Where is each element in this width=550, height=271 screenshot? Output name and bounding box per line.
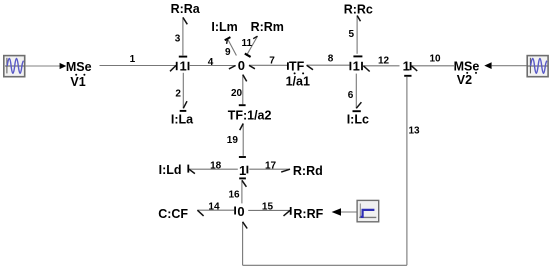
0-junction J0 bbox=[238, 58, 245, 73]
resistor R:Rm bbox=[251, 20, 284, 34]
inductor I:La bbox=[171, 112, 194, 126]
svg-text:I:La: I:La bbox=[171, 112, 194, 126]
svg-text:5: 5 bbox=[349, 29, 355, 40]
svg-text:TF:1/a2: TF:1/a2 bbox=[228, 108, 272, 122]
signal arrowhead into R:RF bbox=[332, 208, 341, 215]
sine source icon (left signal generator) bbox=[4, 56, 25, 77]
svg-text:8: 8 bbox=[328, 54, 334, 65]
source MSe (right label) bbox=[454, 59, 480, 73]
svg-text:MSe: MSe bbox=[66, 60, 92, 74]
bond 6 wire J2 to I:Lc bbox=[348, 74, 362, 112]
svg-text:1: 1 bbox=[130, 54, 136, 65]
sine source icon (right signal generator) bbox=[527, 56, 548, 77]
svg-text:4: 4 bbox=[208, 57, 214, 68]
1-junction J2 bbox=[350, 58, 362, 73]
bond 13 wire J3 to bottom 0-junction (routed) bbox=[243, 76, 420, 265]
svg-text:I:Ld: I:Ld bbox=[159, 163, 182, 177]
bond 8 wire TF to J2 bbox=[307, 54, 350, 70]
source MSe (label) bbox=[66, 60, 92, 74]
svg-text:15: 15 bbox=[262, 201, 274, 212]
bond 9 wire J0 to I:Lm bbox=[225, 37, 237, 58]
svg-text:2: 2 bbox=[175, 89, 181, 100]
bond 4 wire J1 to 0-junction bbox=[189, 57, 236, 69]
svg-text:1: 1 bbox=[403, 58, 410, 73]
MSe V2 activity dots bbox=[466, 72, 477, 74]
MSe V1 activity dots bbox=[75, 74, 85, 76]
inductor I:Ld bbox=[159, 163, 182, 177]
svg-text:10: 10 bbox=[430, 53, 442, 64]
bond 16 wire J4 to J5 bbox=[229, 178, 247, 203]
svg-text:R:Rd: R:Rd bbox=[293, 164, 323, 178]
bond 11 wire J0 to R:Rm bbox=[242, 36, 258, 57]
svg-text:19: 19 bbox=[227, 135, 239, 146]
bond 19 wire TF:1/a2 to J4 bbox=[227, 124, 246, 158]
bond 5 wire J2 to R:Rc bbox=[349, 16, 363, 57]
svg-text:R:Rc: R:Rc bbox=[344, 2, 373, 16]
svg-text:14: 14 bbox=[208, 201, 220, 212]
svg-text:R:Rm: R:Rm bbox=[251, 20, 284, 34]
svg-text:I:Lc: I:Lc bbox=[347, 112, 369, 126]
svg-text:1: 1 bbox=[239, 163, 246, 178]
bond 10 wire MSe V2 to J3 bbox=[411, 53, 454, 71]
inductor I:Lc bbox=[347, 112, 369, 126]
svg-text:TF: TF bbox=[289, 60, 305, 74]
svg-text:12: 12 bbox=[378, 56, 390, 67]
signal wire icon to MSe V1 bbox=[25, 65, 60, 67]
svg-text:9: 9 bbox=[225, 47, 231, 58]
svg-text:R:Ra: R:Ra bbox=[171, 2, 201, 16]
step source icon (signal generator) bbox=[357, 200, 379, 221]
svg-text:20: 20 bbox=[231, 88, 243, 99]
bond 7 wire J0 to TF bbox=[249, 55, 288, 69]
svg-text:V1: V1 bbox=[70, 75, 85, 89]
transformer TF:1/a2 bbox=[228, 108, 272, 122]
svg-text:6: 6 bbox=[348, 90, 354, 101]
svg-text:1: 1 bbox=[353, 58, 360, 73]
svg-text:C:CF: C:CF bbox=[158, 207, 188, 221]
bond 20 wire J0 to TF:1/a2 bbox=[231, 75, 247, 106]
bond 17 wire J4 to R:Rd bbox=[249, 161, 290, 172]
bond 12 wire J3 to J2 bbox=[363, 56, 399, 72]
svg-text:0: 0 bbox=[238, 58, 245, 73]
svg-text:7: 7 bbox=[269, 55, 275, 66]
resistor R:Rd bbox=[293, 164, 323, 178]
svg-text:R:RF: R:RF bbox=[293, 207, 323, 221]
signal arrowhead into MSe V1 bbox=[60, 63, 67, 69]
svg-text:16: 16 bbox=[229, 189, 241, 200]
svg-text:13: 13 bbox=[409, 126, 421, 137]
1-junction J1 bbox=[177, 58, 189, 73]
value label V1 bbox=[70, 75, 85, 89]
svg-text:1/a1: 1/a1 bbox=[286, 75, 310, 89]
svg-text:0: 0 bbox=[237, 204, 244, 219]
bond 2 wire J1 to I:La bbox=[175, 73, 187, 111]
transformer TF 1/a1 bbox=[286, 60, 310, 89]
svg-text:3: 3 bbox=[175, 34, 181, 45]
bond 15 wire J5 to R:RF bbox=[248, 201, 291, 216]
svg-text:17: 17 bbox=[265, 161, 277, 172]
resistor R:Rc bbox=[344, 2, 373, 16]
resistor R:Ra bbox=[171, 2, 201, 16]
svg-text:1: 1 bbox=[179, 58, 186, 73]
bond 3 wire J1 to R:Ra bbox=[175, 17, 188, 56]
1-junction J4 (lower) bbox=[239, 163, 247, 178]
signal arrowhead into MSe V2 bbox=[484, 62, 491, 69]
signal wire icon to MSe V2 bbox=[492, 65, 527, 67]
svg-text:18: 18 bbox=[210, 160, 222, 171]
value label V2 bbox=[457, 73, 472, 87]
svg-text:11: 11 bbox=[242, 38, 253, 49]
0-junction J5 (lower) bbox=[235, 204, 245, 219]
1-junction J3 bbox=[403, 58, 411, 73]
signal wire step icon to R:RF bbox=[341, 211, 357, 213]
bond 14 wire J5 to C:CF bbox=[197, 201, 234, 216]
bond 1 wire MSe to 1-junction bbox=[100, 54, 177, 71]
svg-text:V2: V2 bbox=[457, 73, 472, 87]
resistor R:RF bbox=[293, 207, 323, 221]
svg-text:MSe: MSe bbox=[454, 59, 480, 73]
capacitor C:CF bbox=[158, 207, 188, 221]
svg-text:I:Lm: I:Lm bbox=[211, 20, 237, 34]
bond 18 wire J4 to I:Ld bbox=[188, 160, 238, 173]
inductor I:Lm bbox=[211, 20, 237, 34]
